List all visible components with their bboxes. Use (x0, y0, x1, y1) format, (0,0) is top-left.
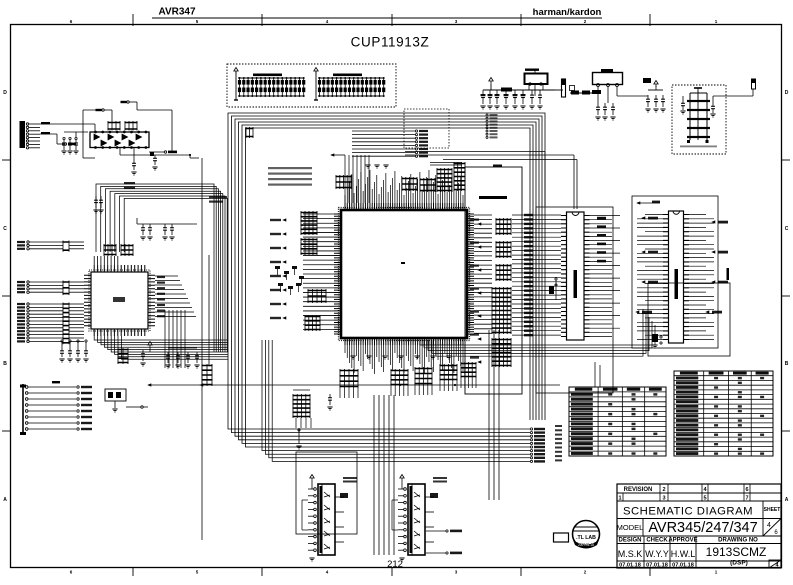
svg-text:harman/kardon: harman/kardon (533, 7, 602, 18)
svg-text:SHEET: SHEET (764, 507, 781, 513)
svg-text:4: 4 (767, 522, 771, 529)
svg-text:MODEL: MODEL (617, 523, 644, 532)
svg-text:C: C (785, 226, 789, 232)
svg-text:CHECK: CHECK (646, 538, 668, 544)
svg-text:H.W.L: H.W.L (671, 549, 696, 559)
svg-text:DRAWING NO: DRAWING NO (718, 538, 758, 544)
svg-text:M.S.K: M.S.K (618, 549, 643, 559)
svg-text:W.Y.Y: W.Y.Y (645, 549, 669, 559)
svg-text:C: C (3, 226, 7, 232)
svg-text:A: A (785, 497, 789, 503)
svg-text:6: 6 (745, 487, 748, 493)
svg-text:1: 1 (618, 496, 621, 502)
svg-text:D: D (3, 90, 7, 96)
svg-text:B: B (785, 361, 789, 367)
svg-text:APPROVE: APPROVE (668, 538, 697, 544)
svg-text:DESIGN: DESIGN (618, 538, 641, 544)
svg-text:D: D (785, 90, 789, 96)
svg-text:B: B (3, 361, 7, 367)
svg-text:212: 212 (387, 559, 403, 570)
svg-text:7: 7 (745, 496, 748, 502)
svg-text:SCHEMATIC DIAGRAM: SCHEMATIC DIAGRAM (623, 506, 753, 518)
svg-text:(DSP): (DSP) (730, 560, 748, 567)
svg-text:A: A (3, 497, 7, 503)
svg-text:1913SCMZ: 1913SCMZ (706, 545, 767, 559)
svg-text:2007.01.18: 2007.01.18 (578, 543, 594, 547)
svg-text:CUP11913Z: CUP11913Z (351, 35, 430, 50)
svg-text:.TL LAB: .TL LAB (576, 535, 596, 541)
svg-text:5: 5 (703, 496, 706, 502)
svg-text:AVR345/247/347: AVR345/247/347 (648, 520, 757, 536)
svg-text:07.01.18: 07.01.18 (672, 563, 694, 569)
svg-text:3: 3 (662, 496, 665, 502)
svg-text:REVISION: REVISION (624, 487, 653, 493)
svg-text:2: 2 (662, 487, 665, 493)
svg-text:07.01.18: 07.01.18 (619, 563, 641, 569)
svg-text:AVR347: AVR347 (158, 7, 195, 18)
svg-text:07.01.18: 07.01.18 (646, 563, 668, 569)
